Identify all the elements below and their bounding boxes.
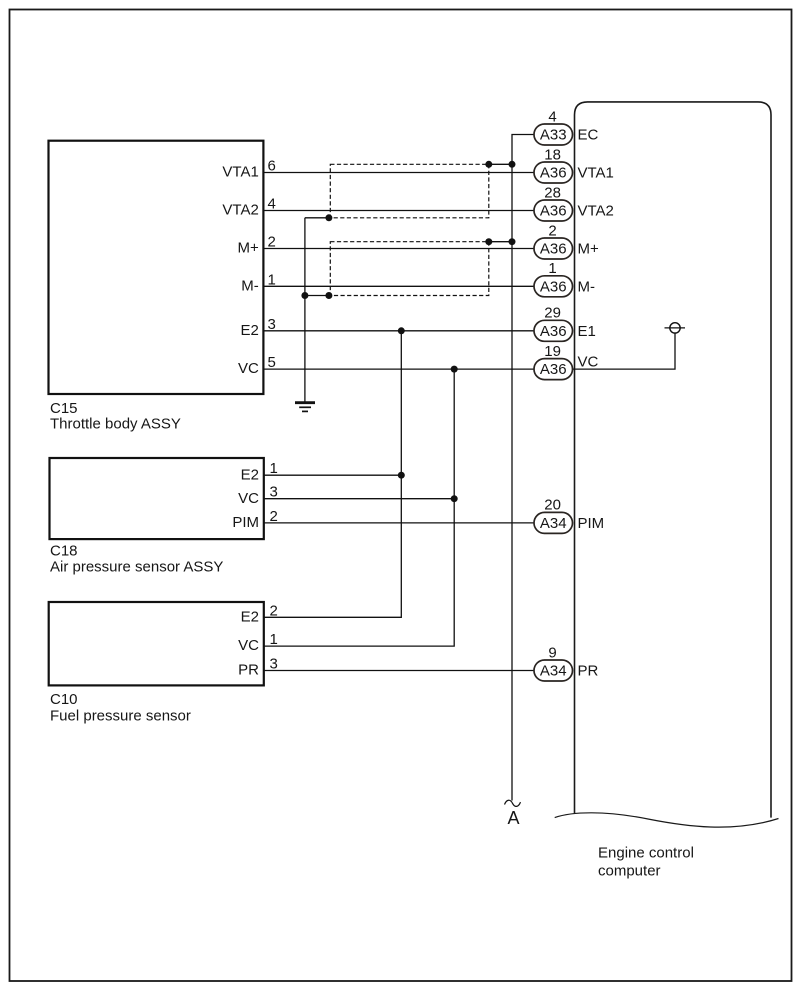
- svg-text:E1: E1: [578, 323, 596, 340]
- wire C18 VC (pin 3): [264, 498, 454, 500]
- svg-text:29: 29: [544, 305, 561, 322]
- junction dot VC bus at C15 VC wire: [451, 366, 458, 373]
- wire M- (C15 pin 1 to A36-1): [263, 285, 534, 287]
- connector C18 box (Air pressure sensor ASSY): [50, 458, 264, 539]
- svg-text:A36: A36: [540, 323, 567, 340]
- junction dot E2 bus at C15 E2 wire: [398, 327, 405, 334]
- wire shield S1 drain to node A bus: [489, 163, 512, 165]
- wire shield S1 bottom corner to ground line: [305, 217, 329, 219]
- svg-text:M-: M-: [578, 278, 596, 295]
- junction dot S2 drain right on A bus: [509, 238, 516, 245]
- ECU connector A36 pin 28 (VTA2) oval: [534, 200, 573, 221]
- ECU connector A36 pin 2 (M+) oval: [534, 238, 573, 259]
- ECU connector A36 pin 1 (M-) oval: [534, 276, 573, 297]
- svg-text:VTA2: VTA2: [578, 203, 614, 220]
- svg-text:C15: C15: [50, 400, 78, 417]
- svg-text:E2: E2: [241, 466, 259, 483]
- svg-text:A36: A36: [540, 203, 567, 220]
- shield box S2 around M+/M- wires: [330, 242, 489, 296]
- svg-text:VC: VC: [238, 637, 259, 654]
- svg-text:Engine control: Engine control: [598, 845, 694, 862]
- svg-text:EC: EC: [578, 127, 599, 144]
- svg-text:PR: PR: [238, 662, 259, 679]
- body ground circle crossbar: [665, 327, 686, 329]
- svg-text:PR: PR: [578, 663, 599, 680]
- svg-text:9: 9: [548, 644, 556, 661]
- ECU connector A36 pin 19 (VC) oval: [534, 359, 573, 380]
- ground symbol: [295, 403, 315, 412]
- wire C10 PR (pin 3 to A34-9): [264, 670, 534, 672]
- svg-text:1: 1: [548, 260, 556, 277]
- junction dot S1 drain right on A bus: [509, 161, 516, 168]
- svg-text:PIM: PIM: [578, 515, 605, 532]
- svg-text:A36: A36: [540, 165, 567, 182]
- svg-text:A36: A36: [540, 361, 567, 378]
- svg-text:VC: VC: [578, 354, 599, 371]
- wire E2 (C15 pin 3 to A36-29 E1): [263, 330, 534, 332]
- ECU connector A36 pin 18 (VTA1) oval: [534, 162, 573, 183]
- junction dot S2 shield corner: [325, 292, 332, 299]
- svg-text:VTA2: VTA2: [222, 202, 258, 219]
- junction dot S2 drain left: [485, 238, 492, 245]
- wire shield ground line: [304, 218, 306, 402]
- svg-text:A36: A36: [540, 241, 567, 258]
- svg-text:Fuel pressure sensor: Fuel pressure sensor: [50, 708, 191, 725]
- svg-text:C10: C10: [50, 691, 78, 708]
- svg-text:A36: A36: [540, 278, 567, 295]
- wire E2 bus (C15 E2 / C18 E2 / C10 E2): [264, 331, 402, 618]
- wire C18 PIM (pin 2 to A34-20): [264, 522, 534, 524]
- wire VC pin to body-ground inside ECU: [573, 333, 676, 369]
- svg-text:A34: A34: [540, 663, 567, 680]
- ECU connector A36 pin 29 (E1) oval: [534, 320, 573, 341]
- junction dot S1 drain left: [485, 161, 492, 168]
- node A break tilde: [505, 800, 521, 806]
- svg-text:28: 28: [544, 184, 561, 201]
- svg-text:M-: M-: [241, 277, 259, 294]
- wire EC to node A bus (down page): [512, 135, 534, 801]
- wire C18 E2 (pin 1): [264, 474, 402, 476]
- connector C15 box (Throttle body ASSY): [49, 141, 264, 394]
- wire shield S2 bottom corner to ground line: [305, 295, 329, 297]
- svg-text:VTA1: VTA1: [578, 165, 614, 182]
- svg-text:19: 19: [544, 343, 561, 360]
- svg-text:A33: A33: [540, 127, 567, 144]
- wire VC (C15 pin 5 to A36-19): [263, 368, 534, 370]
- svg-text:VC: VC: [238, 490, 259, 507]
- svg-text:VTA1: VTA1: [222, 164, 258, 181]
- svg-text:20: 20: [544, 497, 561, 514]
- svg-text:A: A: [507, 808, 519, 828]
- ECU connector A34 pin 9 (PR) oval: [534, 660, 573, 681]
- ECU (Engine control computer) outline: [575, 102, 772, 818]
- svg-text:Throttle body ASSY: Throttle body ASSY: [50, 416, 181, 433]
- svg-text:4: 4: [548, 108, 556, 125]
- svg-text:E2: E2: [241, 608, 259, 625]
- wire M+ (C15 pin 2 to A36-2): [263, 248, 534, 250]
- svg-text:computer: computer: [598, 863, 661, 880]
- junction dot E2 bus at C18 E2 wire: [398, 472, 405, 479]
- svg-text:M+: M+: [238, 240, 259, 257]
- svg-text:VC: VC: [238, 360, 259, 377]
- wire shield S2 drain to node A bus: [489, 241, 512, 243]
- svg-text:M+: M+: [578, 241, 599, 258]
- wire VTA1 (C15 pin 6 to A36-18): [263, 172, 534, 174]
- junction dot S1 shield corner: [325, 214, 332, 221]
- ECU connector A34 pin 20 (PIM) oval: [534, 512, 573, 533]
- svg-text:E2: E2: [240, 322, 258, 339]
- wire VTA2 (C15 pin 4 to A36-28): [263, 210, 534, 212]
- junction dot ground line at S2 tap: [301, 292, 308, 299]
- svg-text:2: 2: [548, 222, 556, 239]
- ECU torn-edge wavy line: [555, 813, 779, 827]
- ECU connector A33 pin 4 (EC) oval: [534, 124, 573, 145]
- body ground circle symbol: [670, 323, 680, 333]
- svg-text:Air pressure sensor ASSY: Air pressure sensor ASSY: [50, 559, 223, 576]
- shield box S1 around VTA1/VTA2 wires: [330, 164, 489, 218]
- svg-text:PIM: PIM: [232, 514, 259, 531]
- svg-text:18: 18: [544, 146, 561, 163]
- svg-text:C18: C18: [50, 543, 78, 560]
- connector C10 box (Fuel pressure sensor): [49, 602, 264, 685]
- svg-text:A34: A34: [540, 515, 567, 532]
- junction dot VC bus at C18 VC wire: [451, 495, 458, 502]
- wire VC bus (C15 VC / C18 VC / C10 VC): [264, 369, 454, 646]
